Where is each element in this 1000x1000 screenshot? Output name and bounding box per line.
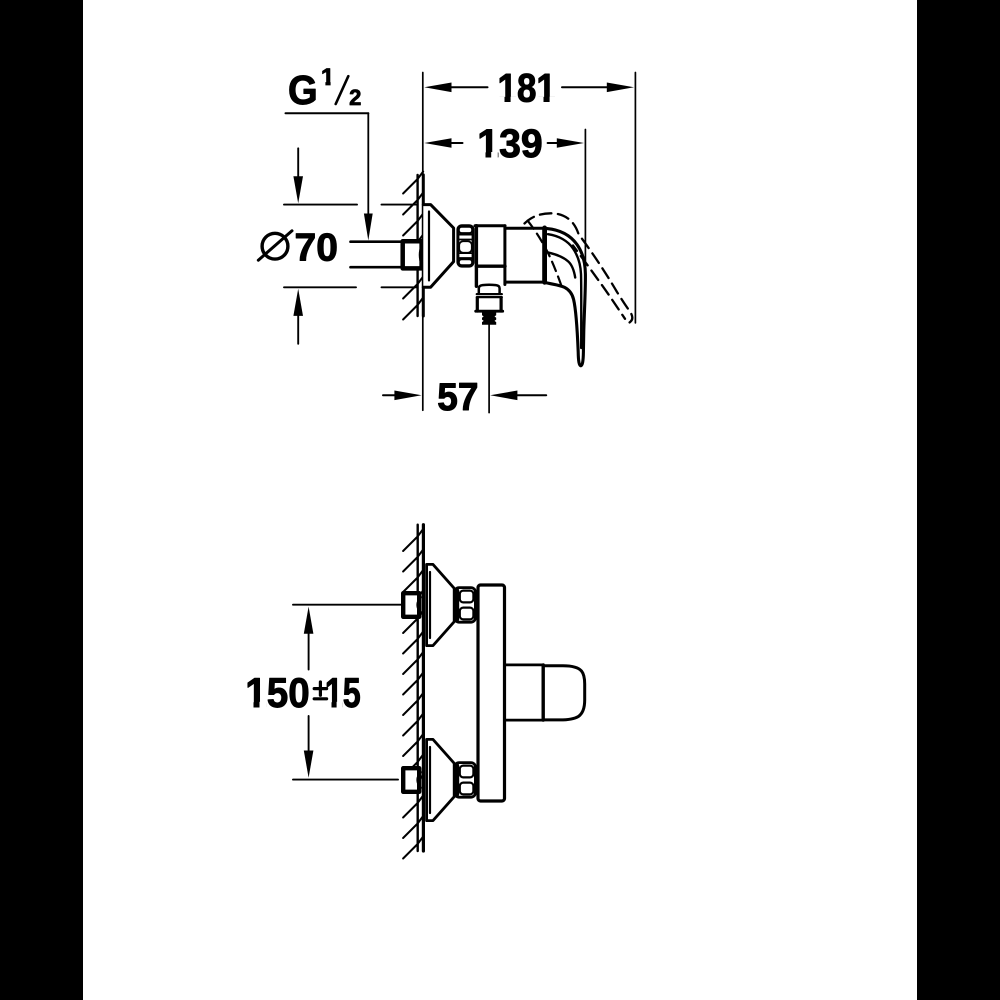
supply pipe (top view): [351, 240, 403, 243]
arrowhead 57 right: [490, 391, 517, 401]
150 dim arrow up: [304, 607, 314, 634]
label D70: [262, 233, 288, 259]
upper union bulge: [418, 597, 421, 613]
escutcheon lower flange line: [429, 747, 431, 813]
150 dim arrow down: [304, 751, 314, 778]
svg-text:139: 139: [477, 122, 542, 166]
handle (open position, dashed) inner arc: [528, 221, 562, 288]
wall line (bottom view, back): [422, 525, 425, 851]
arrowhead 139 right: [557, 138, 584, 148]
fitting bulge at wall: [420, 245, 422, 266]
extension line right (181 dim, open-handle tip): [634, 73, 636, 323]
wall hatching (top view): [403, 172, 423, 320]
valve body middle section: [505, 227, 543, 230]
handle knob (bottom view): [543, 666, 585, 720]
dimension 150+-15 reference line lower: [293, 779, 398, 781]
G1/2 leader underline: [286, 112, 369, 114]
union nut (top view): [458, 226, 473, 266]
handle lower detail line: [548, 253, 575, 278]
G1/2 leader vertical line: [367, 113, 369, 216]
union nut upper (bottom view): [455, 588, 476, 623]
dimension 139 line: [451, 142, 462, 144]
lower union bulge: [418, 772, 421, 788]
wall hatching (bottom view): [403, 529, 423, 859]
S-union fitting behind wall: [403, 241, 422, 268]
escutcheon upper flange line: [429, 572, 431, 638]
label 150 +-15: [245, 668, 361, 716]
dimension D70 upper line: [284, 204, 357, 206]
threaded nipple (black): [482, 312, 496, 324]
body plate (bottom view): [478, 585, 505, 801]
label G 1/2: [288, 64, 361, 113]
escutcheon upper (bottom view): [427, 564, 455, 645]
dimension 181 line: [451, 86, 488, 88]
shower outlet fitting: [477, 298, 501, 311]
extension line left (wall reference, for 181/139/57 dims): [422, 73, 424, 411]
outlet center line: [488, 325, 490, 413]
dimension 150+-15 reference line upper: [293, 604, 401, 606]
plus-minus symbol: [319, 682, 322, 695]
handle (open position, dashed) lower edge: [573, 246, 625, 319]
handle (open position, dashed) top edge: [525, 213, 633, 322]
arrowhead 181 right: [607, 83, 634, 93]
handle stem (bottom view): [505, 664, 542, 667]
svg-text:1: 1: [321, 64, 335, 91]
extension line 139 dim (closed-handle tip): [584, 130, 586, 273]
svg-text:2: 2: [349, 85, 361, 110]
D70 upper arrow: [297, 148, 299, 180]
arrowhead 181 left: [424, 83, 451, 93]
white masks: remove foot serifs from "1" glyphs (target font has plain 1): [246, 80, 556, 709]
outlet elbow below body: [479, 285, 500, 294]
handle (closed position) outline: [545, 229, 586, 366]
arrowhead 139 left: [424, 138, 451, 148]
svg-text:G: G: [288, 68, 318, 114]
dimension 57 line: [383, 394, 395, 396]
svg-text:70: 70: [295, 227, 338, 270]
D70 lower arrow: [297, 312, 299, 344]
svg-text:181: 181: [498, 66, 556, 111]
wall line (top view, back/extension overlay): [422, 175, 425, 316]
G1/2 fraction slash: [336, 76, 349, 104]
wall line (top view, surface): [416, 175, 418, 316]
valve body left section: [475, 226, 478, 287]
escutcheon lower (bottom view): [427, 739, 455, 820]
dimension D70 lower line: [284, 286, 356, 288]
handle base cap: [542, 228, 547, 282]
150 dim vertical shaft: [308, 632, 310, 670]
arrowhead 57 left: [394, 391, 421, 401]
union nut lower (bottom view): [455, 763, 476, 798]
handle joint line: [542, 665, 545, 720]
escutcheon (top view cone): [423, 205, 453, 288]
inlet union square upper (behind wall): [403, 593, 419, 617]
G1/2 leader arrowhead: [364, 214, 373, 241]
svg-text:150: 150: [245, 668, 309, 716]
wall line (bottom view, surface): [417, 525, 419, 851]
inlet union square lower (behind wall): [403, 768, 419, 792]
escutcheon flange line: [428, 212, 430, 281]
outlet band lines: [477, 293, 502, 295]
svg-text:57: 57: [437, 376, 478, 419]
handle inner edge line: [548, 234, 581, 348]
